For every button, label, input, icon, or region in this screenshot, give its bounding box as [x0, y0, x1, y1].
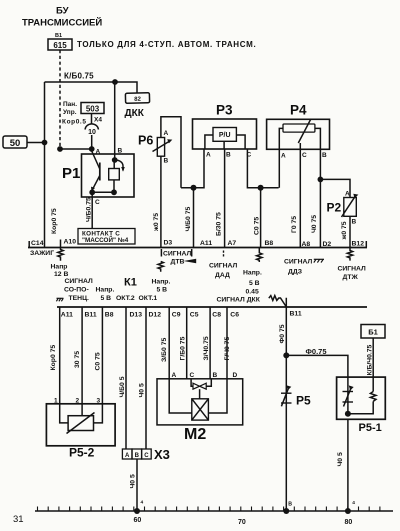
- svg-text:B: B: [322, 152, 327, 159]
- svg-text:B: B: [135, 453, 140, 459]
- svg-text:A: A: [172, 372, 177, 379]
- svg-text:Ч0 5: Ч0 5: [337, 452, 344, 466]
- svg-text:СИГНАЛ: СИГНАЛ: [209, 263, 238, 270]
- svg-text:К/Б/Ч0.75: К/Б/Ч0.75: [367, 344, 374, 375]
- svg-text:B12: B12: [352, 240, 365, 247]
- svg-text:Ч0 75: Ч0 75: [311, 215, 318, 233]
- svg-text:Упр.: Упр.: [63, 109, 77, 116]
- svg-text:В1: В1: [55, 33, 62, 39]
- svg-text:Напр.: Напр.: [96, 287, 115, 294]
- svg-text:D: D: [233, 372, 238, 379]
- svg-text:C14: C14: [31, 240, 44, 247]
- svg-text:4: 4: [141, 500, 144, 506]
- svg-text:D3: D3: [164, 240, 173, 247]
- svg-text:ТОЛЬКО ДЛЯ 4-СТУП. АВТОМ. ТРАН: ТОЛЬКО ДЛЯ 4-СТУП. АВТОМ. ТРАНСМ.: [77, 40, 256, 49]
- svg-text:C9: C9: [172, 312, 181, 319]
- svg-text:Х3: Х3: [154, 447, 170, 462]
- svg-text:B: B: [213, 372, 218, 379]
- svg-text:ж0 75: ж0 75: [153, 213, 160, 232]
- svg-text:СИГНАЛ: СИГНАЛ: [338, 266, 367, 273]
- svg-text:ДТЖ: ДТЖ: [343, 274, 359, 281]
- svg-text:Ф0 75: Ф0 75: [279, 324, 286, 343]
- svg-text:Ч/Б0 5: Ч/Б0 5: [119, 376, 126, 397]
- svg-text:ОКТ.2: ОКТ.2: [116, 295, 135, 302]
- svg-text:СИГНАЛ ДКК: СИГНАЛ ДКК: [217, 296, 261, 303]
- svg-text:ДТВ: ДТВ: [171, 259, 185, 266]
- svg-text:A: A: [164, 130, 169, 137]
- svg-text:B: B: [118, 148, 123, 155]
- svg-text:Г/Ч0 75: Г/Ч0 75: [224, 337, 231, 361]
- svg-text:М2: М2: [184, 426, 206, 443]
- svg-text:B8: B8: [105, 312, 114, 319]
- svg-text:A7: A7: [228, 240, 237, 247]
- svg-text:A: A: [345, 191, 350, 198]
- svg-text:Х4: Х4: [94, 117, 102, 124]
- svg-text:B: B: [288, 502, 292, 508]
- svg-text:Р3: Р3: [216, 103, 233, 118]
- svg-text:30 75: 30 75: [74, 351, 81, 368]
- svg-text:БУ: БУ: [56, 6, 69, 17]
- svg-text:З/Б0 75: З/Б0 75: [161, 338, 168, 362]
- svg-text:C: C: [144, 453, 149, 459]
- svg-text:B11: B11: [85, 312, 97, 319]
- svg-text:Р6: Р6: [138, 134, 153, 148]
- svg-text:Р/U: Р/U: [219, 132, 231, 139]
- svg-text:ЗАЖИГ: ЗАЖИГ: [30, 250, 54, 257]
- svg-text:С0 75: С0 75: [254, 217, 261, 235]
- svg-text:Ч0 5: Ч0 5: [130, 474, 137, 488]
- svg-text:C5: C5: [190, 312, 199, 319]
- svg-text:Ч0 5: Ч0 5: [139, 383, 146, 397]
- svg-text:A: A: [281, 153, 286, 160]
- svg-text:D13: D13: [130, 312, 143, 319]
- svg-text:Кор0 75: Кор0 75: [51, 208, 58, 234]
- svg-text:Р1: Р1: [62, 165, 80, 182]
- svg-text:Б/30 75: Б/30 75: [216, 212, 223, 236]
- svg-text:СО-ПО-: СО-ПО-: [64, 287, 89, 294]
- svg-text:Р5-1: Р5-1: [359, 422, 382, 434]
- svg-text:Р5-2: Р5-2: [69, 446, 95, 460]
- svg-text:СИГНАЛ: СИГНАЛ: [284, 259, 313, 266]
- svg-text:К1: К1: [124, 277, 137, 289]
- svg-text:СИГНАЛ: СИГНАЛ: [163, 251, 192, 258]
- svg-text:"МАССОЙ" №4: "МАССОЙ" №4: [82, 235, 129, 244]
- svg-text:Напр.: Напр.: [152, 279, 171, 286]
- svg-text:З/Ч0.75: З/Ч0.75: [203, 336, 210, 360]
- svg-text:C8: C8: [212, 312, 221, 319]
- svg-text:Р4: Р4: [290, 103, 307, 118]
- svg-text:12 В: 12 В: [54, 271, 68, 278]
- svg-text:5 В: 5 В: [157, 287, 168, 294]
- svg-text:ОКТ.1: ОКТ.1: [139, 295, 158, 302]
- svg-text:Напр.: Напр.: [243, 270, 262, 277]
- svg-text:D2: D2: [323, 241, 332, 248]
- svg-text:ДДЗ: ДДЗ: [288, 269, 302, 276]
- svg-text:10: 10: [88, 129, 96, 136]
- svg-text:A8: A8: [302, 241, 311, 248]
- svg-text:60: 60: [134, 517, 142, 524]
- svg-text:Пан.: Пан.: [63, 101, 77, 108]
- svg-text:5 В: 5 В: [101, 295, 112, 302]
- svg-text:B8: B8: [265, 240, 274, 247]
- svg-text:C: C: [302, 152, 307, 159]
- svg-text:С0 75: С0 75: [95, 352, 102, 370]
- svg-text:Кор0.5: Кор0.5: [62, 119, 87, 126]
- svg-text:C: C: [190, 372, 195, 379]
- svg-text:ж0 75: ж0 75: [341, 221, 348, 240]
- svg-text:ТРАНСМИССИЕЙ: ТРАНСМИССИЕЙ: [22, 17, 102, 29]
- svg-text:Г/Б0 75: Г/Б0 75: [180, 336, 187, 360]
- svg-text:80: 80: [345, 519, 353, 526]
- svg-text:A11: A11: [200, 240, 212, 247]
- svg-text:B: B: [352, 219, 357, 226]
- svg-text:Напр: Напр: [51, 264, 68, 271]
- svg-text:615: 615: [53, 41, 67, 50]
- svg-text:Б1: Б1: [368, 328, 378, 337]
- svg-text:D12: D12: [149, 312, 162, 319]
- svg-text:82: 82: [134, 97, 141, 103]
- svg-text:31: 31: [13, 514, 24, 525]
- svg-text:70: 70: [238, 519, 246, 526]
- svg-text:СИГНАЛ: СИГНАЛ: [65, 278, 94, 285]
- svg-text:A: A: [125, 453, 130, 459]
- svg-text:B11: B11: [290, 310, 302, 317]
- svg-text:B: B: [164, 158, 169, 165]
- svg-text:4: 4: [352, 500, 355, 506]
- svg-text:C6: C6: [230, 312, 239, 319]
- svg-text:A: A: [206, 152, 211, 159]
- svg-text:Р5: Р5: [296, 394, 311, 408]
- svg-text:50: 50: [10, 138, 21, 149]
- svg-text:Г0 75: Г0 75: [291, 216, 298, 233]
- svg-text:Ч/Б0.75: Ч/Б0.75: [86, 197, 93, 222]
- svg-text:Ч/Б0 75: Ч/Б0 75: [185, 207, 192, 232]
- svg-text:A10: A10: [64, 239, 77, 246]
- svg-text:A11: A11: [61, 312, 73, 319]
- svg-text:P2: P2: [327, 201, 342, 215]
- svg-text:5 В: 5 В: [249, 280, 260, 287]
- svg-text:ДАД: ДАД: [215, 272, 230, 279]
- svg-text:Кор0 75: Кор0 75: [50, 345, 57, 371]
- svg-text:Ф0.75: Ф0.75: [306, 347, 327, 356]
- svg-text:503: 503: [86, 105, 100, 114]
- svg-text:ТЕНЦ.: ТЕНЦ.: [69, 295, 90, 302]
- svg-text:B: B: [226, 152, 231, 159]
- svg-text:C: C: [95, 199, 100, 206]
- svg-text:0.45: 0.45: [246, 289, 259, 296]
- svg-text:ДКК: ДКК: [125, 108, 145, 119]
- svg-text:К/Б0.75: К/Б0.75: [64, 72, 94, 81]
